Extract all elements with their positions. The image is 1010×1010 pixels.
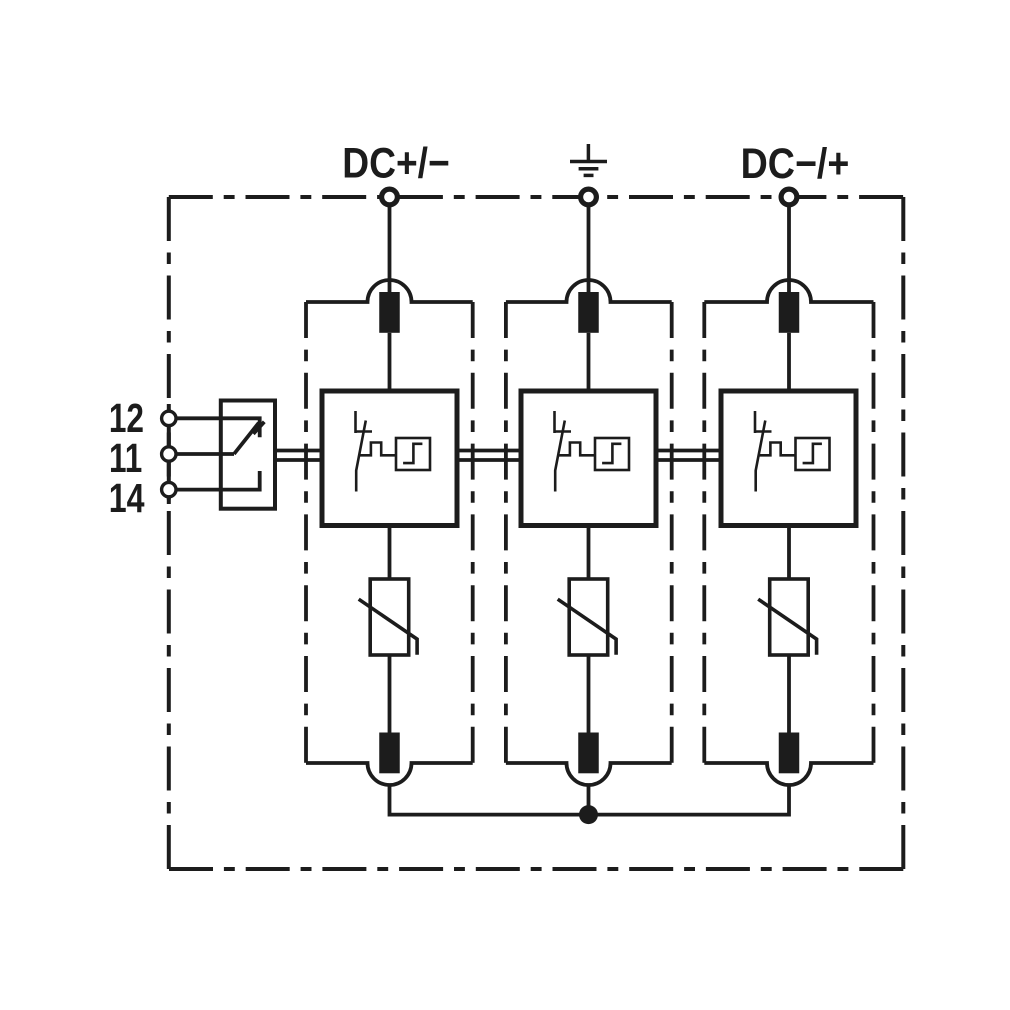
svg-text:DC+/−: DC+/− — [342, 139, 449, 187]
svg-text:14: 14 — [109, 475, 145, 521]
svg-text:DC−/+: DC−/+ — [741, 138, 850, 187]
svg-text:11: 11 — [109, 435, 142, 481]
svg-text:12: 12 — [109, 395, 144, 441]
